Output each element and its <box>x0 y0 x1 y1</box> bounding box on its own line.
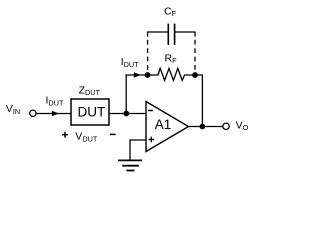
svg-text:VO: VO <box>236 119 249 132</box>
ground <box>118 160 142 170</box>
current arrow IDUT feedback <box>134 72 141 77</box>
svg-text:CF: CF <box>164 5 177 18</box>
label minus of VDUT <box>110 133 116 135</box>
svg-text:DUT: DUT <box>78 105 106 120</box>
node output <box>200 124 206 130</box>
svg-text:RF: RF <box>165 52 178 65</box>
label +VDUT- (plus sign) <box>62 132 68 138</box>
op-amp plus input sign <box>149 137 155 143</box>
svg-text:ZDUT: ZDUT <box>79 84 101 97</box>
node feedback left <box>145 72 151 78</box>
dashed wire left (cap branch) <box>147 40 149 72</box>
dashed wire right (cap branch) <box>194 40 196 72</box>
node DUT output <box>123 111 129 117</box>
current arrow IDUT input <box>52 111 59 116</box>
wire feedback horizontal <box>126 74 148 76</box>
terminal VIN <box>30 110 36 116</box>
wire DUT to opamp <box>109 113 146 115</box>
node feedback right <box>192 72 198 78</box>
svg-text:VIN: VIN <box>6 103 20 116</box>
capacitor CF wires <box>148 32 168 37</box>
svg-text:IDUT: IDUT <box>121 56 139 69</box>
wire riser to feedback <box>125 74 127 113</box>
wire output <box>189 126 223 128</box>
terminal VO <box>223 123 229 129</box>
svg-text:IDUT: IDUT <box>46 95 64 108</box>
DUT box <box>71 99 109 125</box>
resistor RF <box>148 68 195 80</box>
op-amp minus input sign <box>148 110 153 112</box>
wire plus input to ground <box>130 140 146 160</box>
svg-text:A1: A1 <box>155 117 172 132</box>
wire VIN to DUT <box>36 113 71 115</box>
wire feedback right corner <box>195 75 202 127</box>
op-amp A1 <box>146 102 189 152</box>
svg-text:VDUT: VDUT <box>75 131 98 144</box>
capacitor CF plates <box>167 24 169 45</box>
